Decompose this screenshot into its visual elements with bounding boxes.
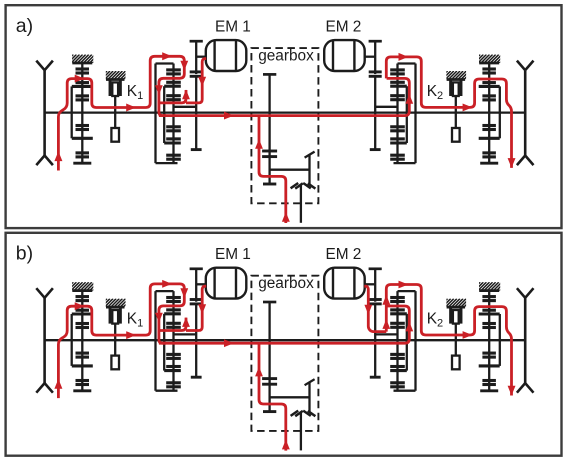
EM2 motor shaft [369, 40, 382, 43]
arrow down to right wheel [508, 158, 516, 168]
svg-text:EM 1: EM 1 [215, 246, 251, 263]
svg-text:gearbox: gearbox [258, 275, 314, 292]
arrow up into EM1 mesh [182, 317, 190, 327]
arrow up EM2 right leg [405, 94, 413, 104]
arrow right over left stack [75, 302, 85, 310]
main axle shaft [45, 111, 526, 113]
arrow down EM1 left leg [155, 85, 163, 95]
motor EM1 [206, 40, 247, 71]
EM2 motor shaft [369, 267, 382, 270]
gearbox internals and bevel drive [263, 301, 276, 304]
red flow: EM1 mesh U-branch [159, 90, 186, 103]
red flow: left wheel input [58, 284, 184, 398]
EM2 gear stack [396, 64, 398, 164]
EM1 motor shaft [190, 267, 203, 270]
arrow right EM2 top [399, 53, 409, 61]
arrow right past K2 [463, 331, 473, 339]
arrow down from EM1 [198, 77, 206, 87]
gearbox dashed box [251, 48, 318, 203]
arrow down from EM1 [198, 304, 206, 314]
arrow up EM2 right leg [405, 322, 413, 332]
red flow: below-axle bus [159, 78, 409, 115]
red flow: gearbox input branch [259, 343, 286, 450]
left wheel [43, 298, 46, 383]
svg-text:gearbox: gearbox [258, 48, 314, 65]
arrow up at left wheel [54, 379, 62, 389]
red flow: gearbox input branch [259, 116, 286, 223]
svg-text:a): a) [16, 15, 33, 37]
arrow up into EM2 mesh [382, 319, 390, 329]
arrow up into EM1 mesh [182, 90, 190, 100]
arrow right EM1 top [162, 52, 172, 60]
EM2 shaft stub [365, 56, 376, 58]
arrow right EM2 top [399, 281, 409, 289]
EM1 gear stack [172, 64, 174, 164]
arrow right over left stack [75, 75, 85, 83]
arrow up at left wheel [54, 151, 62, 161]
gearbox internals and bevel drive [263, 73, 276, 76]
red flow: EM2 motor feed [364, 286, 386, 331]
EM2 gear stack [396, 291, 398, 391]
arrow right EM1 top [162, 280, 172, 288]
EM2 shaft stub [365, 283, 376, 285]
red flow: EM1 motor feed [186, 59, 206, 103]
arrow down into EM1 gears [180, 288, 188, 298]
EM1 gear stack [172, 291, 174, 391]
arrow up gearbox input [282, 212, 290, 222]
red flow: below-axle bus [159, 306, 409, 343]
arrow up EM2 mid rise [382, 295, 390, 305]
arrow up in gearbox [255, 367, 263, 377]
arrow up in gearbox [255, 139, 263, 149]
gearbox dashed box [251, 276, 318, 431]
right wheel [524, 70, 527, 155]
arrow down from EM2 [364, 305, 372, 315]
EM1 motor shaft [190, 40, 203, 43]
red flow: EM2 top loop [386, 57, 511, 168]
svg-text:b): b) [16, 243, 33, 265]
arrow right on bus [224, 339, 234, 347]
arrow down into EM1 gears [180, 61, 188, 71]
red flow: EM1 mesh U-branch [159, 318, 186, 331]
arrow right past K2 [463, 104, 473, 112]
left wheel [43, 70, 46, 155]
svg-text:EM 2: EM 2 [325, 246, 361, 263]
panel b frame [6, 233, 562, 456]
right wheel [524, 298, 527, 383]
motor EM1 [206, 268, 247, 299]
arrow right past K1 [126, 331, 136, 339]
motor EM2 [324, 40, 365, 71]
svg-text:EM 2: EM 2 [325, 19, 361, 36]
red flow: EM1 motor feed [186, 286, 206, 330]
arrow right on bus [224, 112, 234, 120]
svg-text:EM 1: EM 1 [215, 19, 251, 36]
EM1 shaft stub [196, 56, 206, 58]
red flow: left wheel input [58, 56, 184, 170]
red flow: EM2 top loop [386, 285, 511, 396]
EM1 shaft stub [196, 283, 206, 285]
arrow down to right wheel [508, 386, 516, 396]
panel a frame [6, 5, 562, 228]
arrow down EM1 left leg [155, 313, 163, 323]
main axle shaft [45, 339, 526, 341]
arrow right past K1 [126, 104, 136, 112]
arrow up gearbox input [282, 440, 290, 450]
motor EM2 [324, 268, 365, 299]
